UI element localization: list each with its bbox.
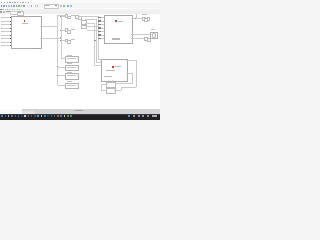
R4 elbow wire [58,84,66,87]
S3 junction dot [59,39,62,42]
buzzer LS1 square a [142,17,146,21]
toolbar1 icon r3 [67,5,69,7]
taskbar icon 12 [37,115,39,117]
bus wire v1 [56,15,59,85]
U1 left pin 2 wire [1,20,11,23]
U1 pin 7 tick [0,37,2,40]
toolbar1 icon 10 [23,5,25,7]
toolbar2 icon 10 [21,9,22,11]
taskbar icon 14 [44,115,46,117]
ladder wire B [85,18,96,21]
taskbar icon 10 [31,115,33,117]
active sheet tab [17,11,24,16]
X1 left wire b [101,89,106,92]
S3 stub wire [61,39,65,42]
X1 stub b [111,80,114,82]
U1 pin 3 tick [0,23,2,26]
bus wire v2 [60,15,63,59]
U1 left pin 5 wire [1,30,11,33]
resistor R3 [65,73,78,80]
symbol S1 label [71,15,75,16]
R4 right stub [77,84,79,87]
U1 red mark [24,20,26,22]
taskbar icon 21 [67,115,69,117]
taskbar icon 9 [28,115,30,117]
U1 pin 4 dot [10,28,11,29]
taskbar icon 6 [18,115,20,117]
taskbar icon 19 [60,115,62,117]
toolbar1 icon 9 [21,5,23,7]
R3 feed wire [58,74,66,77]
status bar left [0,109,22,114]
U2 left pin 5 stub [101,30,104,33]
toolbar1 icon 6 [13,5,15,7]
menu bar [0,0,160,3]
symbol S1 square a [65,14,69,18]
U2 left pin 4 stub [101,27,104,30]
junction dot A [56,25,59,28]
X1 right vwire [120,87,123,91]
component B2 [81,25,87,30]
taskbar icon 17 [54,115,56,117]
toolbar1 icon 11 [27,5,29,7]
toolbar2 icon 3 [5,9,6,11]
component D2 square a [144,37,148,41]
R1 right stub [77,57,79,60]
menu item 6 [14,1,15,4]
crystal X1 box a [106,82,116,88]
U1 pin 4 tick [0,27,2,30]
combo text [45,5,50,6]
U2 pin 3 label [98,24,101,25]
wire U2 to D2 [131,37,144,40]
U1 left pin 1 wire [1,16,11,19]
U2 pin 7 label [98,38,101,39]
taskbar icon 3 [8,115,10,117]
R3 right stub [77,74,79,77]
U1 left pin 3 wire [1,23,11,26]
toolbar2 icon 5 [9,9,10,11]
taskbar icon 11 [34,115,36,117]
toolbar2 icon 8 [17,9,18,11]
U2 left pin 2 stub [101,20,104,23]
taskbar icon 1 [1,115,3,117]
symbol S4 square b [78,16,82,20]
tray icon 2 [138,115,140,117]
toolbar1 icon 4 [8,5,10,7]
taskbar icon 8 [24,115,26,117]
U3 pin wire 2 [96,61,101,64]
tray icon 3 [142,115,144,117]
U1 pin 8 dot [10,42,11,43]
U2 pin 1 label [98,17,101,18]
combo arrow [55,5,56,6]
taskbar icon 4 [11,115,13,117]
R2 junction dot [56,65,59,68]
status text [75,110,84,111]
X1 left vwire [100,84,103,90]
U3 pin wire 3 [94,64,101,67]
R3 inner line [67,74,76,77]
U1 pin 6 tick [0,34,2,37]
IC U2 body [104,15,133,45]
S2 stub wire [61,29,65,32]
toolbar2 icon 9 [19,9,20,11]
U2 left pin 6 stub [101,34,104,37]
taskbar icon 5 [15,115,17,117]
U1 pin 5 dot [10,31,11,32]
component D2 square b [147,38,151,42]
taskbar icon 16 [51,115,53,117]
U2 pin 5 label [98,31,101,32]
menu item 1 [1,1,2,4]
R1 elbow wire [61,57,66,60]
symbol S3 square b [67,40,71,44]
toolbar1 icon 2 [3,5,5,7]
X1 mid stub [109,87,112,89]
LS1 net junction dot [134,17,137,20]
toolbar1 icon 5 [11,5,13,7]
resistor R2 [65,65,78,72]
toolbar1 icon 12 [29,5,31,7]
S2 junction dot [59,29,62,32]
R1 inner line [67,57,76,60]
tray icon 4 [147,115,149,117]
menu item 4 [9,1,10,4]
toolbar2 icon 4 [7,9,8,11]
taskbar search pill [22,111,35,113]
toolbar1 icon 14 [35,5,37,7]
taskbar [0,114,160,120]
toolbar1 icon r4 [70,5,72,7]
U1 pin 2 dot [10,21,11,22]
X1 right wire [114,89,121,92]
resistor R1 [65,56,78,63]
R2 label [67,63,72,64]
toolbar1 icon 13 [31,5,33,7]
U1 pin 5 tick [0,30,2,33]
tab row [0,11,160,14]
wire U2 to LS1 [131,17,142,20]
toolbar separator [0,7,160,10]
R1 label [67,55,72,56]
ladder wire D [85,25,98,28]
ladder wire E [87,29,99,32]
symbol S4 square a [75,15,79,19]
menu item 8 [20,1,21,4]
component M1 [150,32,157,40]
tabrow label [6,11,10,12]
taskbar icon 13 [41,115,43,117]
taskbar icon 22 [70,115,72,117]
U1 pin 8 tick [0,41,2,44]
U1 left pin 9 wire [1,44,11,47]
toolbar2 icon 7 [14,9,15,11]
menu item 2 [4,1,6,4]
R4 label [67,81,72,82]
U3 red mark [112,66,114,68]
symbol S2 label [71,29,75,30]
menu item 11 [28,1,29,4]
M1 label [151,29,155,30]
tray clock [152,115,157,117]
junction dot B [59,36,62,39]
U2 inner label [112,38,120,40]
R2 inner line [67,66,76,69]
U1 left pin 6 wire [1,34,11,37]
M1 inner circle [152,33,157,38]
X1 stub a [107,80,110,82]
S1 stub wire [61,15,65,18]
R2 feed wire [58,66,66,69]
S1 junction dot [59,15,62,18]
U1 pin 9 dot [10,45,11,46]
symbol S1 square b [67,16,71,20]
canvas top border [0,13,160,16]
menu item 5 [12,1,13,4]
U2 left pin 3 stub [101,23,104,26]
taskbar icon 15 [47,115,49,117]
R4 inner line [67,84,76,87]
U2 pin 4 label [98,27,101,28]
canvas sheet [0,14,160,109]
U1 part label [19,48,29,49]
wire U2 to M1 [131,33,150,36]
U1 left pin 7 wire [1,37,11,40]
U2 red mark label [118,21,124,22]
R3 label [67,72,72,73]
symbol S3 label [71,39,75,40]
symbol S2 square b [67,30,71,34]
toolbar1 icon r2 [63,5,65,7]
U3 lower label [104,76,112,77]
U1 pin 9 tick [0,44,2,47]
U2 red mark [115,20,117,22]
toolbar1 icon 3 [6,5,8,7]
LS1 label [142,14,147,15]
U2 pin 6 label [98,34,101,35]
toolbar combo box [44,4,60,9]
menu item 10 [25,1,26,4]
net label on riser [94,40,97,41]
buzzer LS1 square b [144,18,148,22]
ladder wire A [80,15,99,18]
taskbar icon 20 [64,115,66,117]
menu item 3 [7,1,8,4]
R3 junction dot [56,74,59,77]
U1 right pin wire B [40,37,60,40]
status bar [22,109,160,114]
toolbar row 1 [0,3,160,8]
IC U3 body [101,59,127,82]
taskbar icon 18 [57,115,59,117]
U1 pin 2 tick [0,20,2,23]
component B1 [81,20,87,25]
tray chevron [128,115,130,117]
toolbar2 icon 6 [12,9,13,11]
tab label [18,12,21,13]
tabrow icon 1 [0,11,2,13]
U2 pin 2 label [98,20,101,21]
tray icon 1 [133,115,135,117]
tabrow combo [10,11,18,15]
wire drop at LS1 net [135,14,138,19]
riser wire v4 [95,19,98,63]
toolbar1 icon 7 [16,5,18,7]
toolbar row 2 [0,8,160,11]
U3 center label [106,70,115,72]
riser wire v3 [97,16,100,60]
loop wire v5 [135,60,138,87]
U1 pin 3 dot [10,24,11,25]
U1 pin 1 dot [10,17,11,18]
riser wire v5 [93,23,96,66]
menu item 9 [22,1,23,4]
U2 part label [113,43,120,44]
buzzer LS1 square c [147,17,151,21]
U1 left pin 4 wire [1,27,11,30]
taskbar icon 7 [21,115,23,117]
menu item 7 [17,1,18,4]
X1 left wire a [101,83,106,86]
U2 left pin 7 stub [101,37,104,40]
loop wire mid [116,82,132,85]
tabrow icon 2 [3,11,5,13]
loop wire v6 [131,73,134,83]
resistor R4 [65,83,78,90]
U1 pin 6 dot [10,35,11,36]
U3 red mark label [115,66,121,67]
U1 pin 1 tick [0,16,2,19]
toolbar1 icon r1 [60,5,62,7]
taskbar top edge [0,113,160,116]
U1 right pin wire A [40,25,57,28]
U1 pin 7 dot [10,38,11,39]
U3 right wire 1 [126,59,137,62]
toolbar2 icon 2 [2,9,3,11]
U3 pin wire 1 [98,58,101,61]
loop wire bottom [121,86,136,89]
symbol S3 square a [65,39,69,43]
U1 left pin 8 wire [1,41,11,44]
ladder wire C [85,22,94,25]
U1 red mark label [22,23,28,24]
symbol S2 square a [65,28,69,32]
toolbar1 icon 15 [37,5,39,7]
taskbar icon 2 [5,115,7,117]
IC U1 body [11,16,43,49]
toolbar2 icon 1 [0,9,1,11]
bus top link wire [57,14,64,17]
R2 right stub [77,66,79,69]
toolbar1 icon 1 [1,5,3,7]
crystal X1 box b [106,88,116,94]
U2 left pin 1 stub [101,16,104,19]
U3 right wire 2 [126,72,133,75]
toolbar1 icon 8 [18,5,20,7]
